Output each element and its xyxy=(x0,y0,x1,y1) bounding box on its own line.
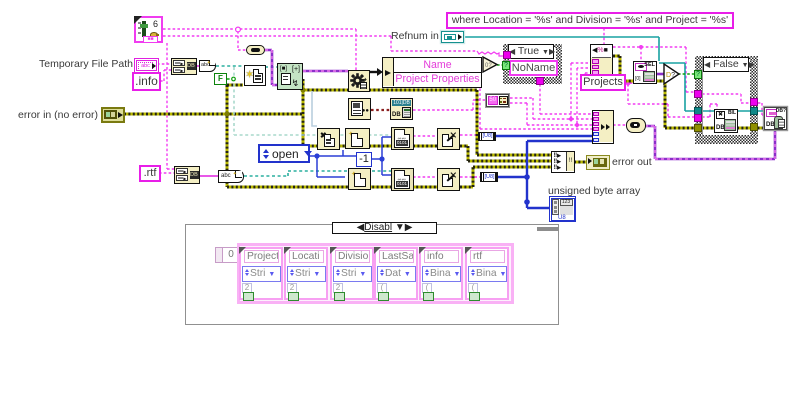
indicator: unsigned byte array xyxy=(549,196,576,222)
node: cluster element LastSaved (date) xyxy=(374,247,418,300)
node: DB tools free result (right of False) xyxy=(764,107,787,130)
junction: pink diamonds on bundle feed lines xyxy=(568,81,631,128)
node: format into string (with %s icon) xyxy=(590,44,613,76)
node: array index of cluster array constant xyxy=(215,247,223,263)
wire: .info constant to concat node input 2 xyxy=(160,70,171,81)
node: variant oval (lower) xyxy=(626,118,646,133)
wire: 50-node outputs to bundle rows 2,3 xyxy=(510,98,592,119)
label: error out xyxy=(612,156,652,168)
wire: dark red dashed between DB nodes xyxy=(371,109,390,111)
tunnel: False selector xyxy=(694,70,702,79)
node: cluster element rtf (binary) xyxy=(465,247,509,300)
constant: NoName string inside True case xyxy=(509,60,558,76)
node: cluster element Location (string) xyxy=(284,247,328,300)
wire: True case bottom tunnel down to bundle row1 xyxy=(540,84,592,114)
structure: diagram disable structure frame xyxy=(185,224,559,325)
node: open/create file VI (row2) xyxy=(348,168,371,190)
node: empty string? triangle (after property node) xyxy=(482,56,500,74)
node: cluster shell xyxy=(237,243,514,304)
tunnel: False left refnum tunnel xyxy=(694,107,702,115)
constant: where SQL string xyxy=(446,12,734,29)
tunnel: True selector xyxy=(502,61,510,70)
indicator: error out cluster xyxy=(586,155,610,170)
wire: second string wire from VI icon to True-case tunnel xyxy=(163,36,477,51)
constant: .info string xyxy=(132,72,161,91)
wire: pale refnum from open-config node down to row 1 xyxy=(312,91,317,126)
node: open/create file VI (row1) xyxy=(345,128,370,149)
control: Temporary File Path string xyxy=(136,60,157,71)
label: True case selector xyxy=(508,44,554,59)
wire: where-clause constant down into format node xyxy=(603,28,605,44)
wire: scalloped jog into True tunnel xyxy=(477,51,503,56)
node: open config data VI (green) xyxy=(277,63,303,90)
node: cluster element Division (string) xyxy=(330,247,374,300)
node: top-left subVI icon xyxy=(134,16,163,43)
wire: app refnum (violet with pink dashes) xyxy=(265,50,775,159)
wire: format node string inputs fed from below xyxy=(571,63,588,125)
tunnel: False left string tunnel 2 xyxy=(694,114,702,122)
junction: olive dots xyxy=(224,111,229,116)
wire: .rtf constant to lower concat node xyxy=(159,172,174,174)
wire: pale path branch down to file row 1 xyxy=(234,67,391,135)
node: path-to-string tag (upper) xyxy=(199,60,216,72)
label: property Project Properties xyxy=(394,73,481,86)
node: 50 / format constant pair xyxy=(486,94,509,107)
wire: branch down from junction circle to string-to-refnum oval xyxy=(238,31,246,50)
wire: bundle output to variant oval xyxy=(613,124,626,126)
wire: DB-open node output up into 50-node xyxy=(413,100,487,110)
svg-text:0?: 0? xyxy=(485,63,492,69)
label: False case selector xyxy=(703,57,749,72)
node: property node body xyxy=(382,57,482,88)
wire: read node outputs to close nodes (row1,row2) xyxy=(413,135,478,136)
node: close file VI (row2) xyxy=(437,168,460,191)
wire: int32 blue wires xyxy=(303,137,391,177)
tunnel: True bottom output tunnel xyxy=(536,77,544,85)
control: Refnum in xyxy=(441,31,464,43)
tunnel: True left string tunnel xyxy=(503,51,511,59)
structure: True case frame (checkered) xyxy=(503,44,509,84)
node: string-to-byte-array [U8] (row1) xyxy=(478,132,496,141)
constant: F boolean xyxy=(214,73,227,85)
node: bundle/format cluster node xyxy=(592,110,614,144)
constant: open enum xyxy=(258,144,310,163)
junction: hollow pink circles xyxy=(236,27,241,32)
node: string-to-refnum oval (upper) xyxy=(246,45,265,55)
node: read from binary file VI (row2) xyxy=(391,168,414,191)
structure: False case frame (checkered) xyxy=(695,56,703,144)
node: string-to-byte-array [U8] (row2) xyxy=(480,172,498,182)
wire: property node row2 down to bundle row4 xyxy=(480,74,592,129)
decorative: gray resize bar xyxy=(537,227,559,231)
wire: pink wires inside False case xyxy=(702,94,751,103)
node: DB variant-to-data icon xyxy=(390,98,413,120)
node: DB tools select data (SEL) xyxy=(633,61,657,84)
junction: blue dots xyxy=(314,153,319,158)
wire: TFP control to concat node input 1 xyxy=(157,63,171,65)
wire: format node output to SEL node and False tunnel xyxy=(613,47,694,92)
wire: magenta solid stubs concat->string-to-path tags xyxy=(196,66,218,176)
constant: Projects string xyxy=(580,74,626,91)
wire: refnum in (teal solid) to SEL node and False case xyxy=(464,37,764,111)
wire: Temporary File Path trunk down the left side xyxy=(167,43,174,169)
label: error in (no error) xyxy=(18,109,98,121)
label: Temporary File Path xyxy=(39,58,133,70)
wire: string (pink dashed) from VI icon top output to gear node xyxy=(157,28,764,177)
wire: boolean green dashed xyxy=(227,65,694,79)
control: error in (no error) cluster xyxy=(101,107,125,123)
label: unsigned byte array xyxy=(548,185,640,197)
node: invoke gear node xyxy=(348,70,370,92)
constant: -1 numeric xyxy=(356,152,372,167)
label: Refnum in xyxy=(391,30,439,42)
svg-text:D?: D? xyxy=(666,72,675,79)
node: read from binary file VI (row1) xyxy=(391,127,414,150)
wire: path wires (teal dashed) xyxy=(216,66,391,176)
node: build path (lower) xyxy=(174,166,200,184)
node: empty? triangle (after SEL) xyxy=(663,63,681,85)
node: string-to-path tag (lower) xyxy=(218,170,244,183)
node: merge errors VI xyxy=(551,151,575,173)
tunnel: False right refnum tunnel xyxy=(750,107,758,115)
node: close file VI (row1) xyxy=(437,128,460,150)
tunnel: False left string tunnel xyxy=(694,90,702,98)
wire: Projects constant to SEL node and False tunnel xyxy=(625,83,694,117)
node: build path (upper) xyxy=(171,58,197,75)
label: Disable structure selector xyxy=(332,222,437,234)
node: cluster element Project (string) xyxy=(239,247,283,300)
tunnel: False left error tunnel xyxy=(694,124,702,132)
wire: error in trunk (olive dashed) xyxy=(124,56,764,187)
constant: .rtf string xyxy=(139,165,161,182)
node: delete/deny access file VI xyxy=(317,128,340,150)
node: cluster element info (binary) xyxy=(419,247,463,300)
label: property Name xyxy=(394,59,481,72)
node: DB tools execute query (inside False) xyxy=(714,109,738,133)
wire: byte array blue wires (bold) xyxy=(496,136,592,208)
tunnel: False right string tunnel xyxy=(750,98,758,106)
node: DB tools open connection icon xyxy=(348,98,371,120)
tunnel: False right error tunnel xyxy=(750,123,758,131)
node: create file VI xyxy=(244,65,266,86)
wire: black reference arrow into property node xyxy=(370,71,378,73)
